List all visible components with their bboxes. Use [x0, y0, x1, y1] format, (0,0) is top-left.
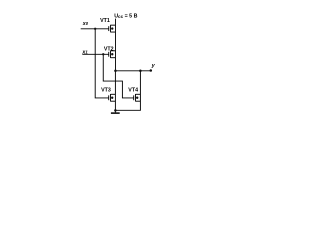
svg-text:VT2: VT2	[104, 47, 114, 53]
svg-text:y: y	[151, 63, 156, 69]
svg-text:x0: x0	[82, 21, 89, 27]
svg-text:VT1: VT1	[100, 18, 110, 24]
svg-text:VT3: VT3	[101, 88, 111, 94]
svg-text:Ucc = 5 В: Ucc = 5 В	[114, 14, 137, 20]
svg-text:VT4: VT4	[128, 88, 138, 94]
